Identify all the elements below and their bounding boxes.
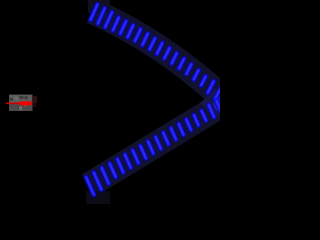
lower helix coil stroke 10 [156,137,161,149]
hairpin vertex smear [200,88,220,117]
faint artifact patch at upper arm start [88,0,110,13]
lower helix coil stroke 17 [209,105,214,117]
upper helix coil stroke 6 [128,25,134,37]
upper helix coil stroke 10 [157,43,162,54]
lower helix coil stroke 14 [186,120,191,130]
upper helix arm backing [92,11,219,94]
lower helix coil stroke 8 [140,146,146,158]
lower helix coil stroke 12 [171,128,176,139]
lower helix coil stroke 9 [148,142,153,154]
lower helix coil stroke 1 [86,177,94,194]
lower helix coil stroke 18 [216,101,221,113]
upper helix coil stroke 7 [135,29,141,41]
upper helix coil stroke 3 [105,12,112,27]
upper helix coil stroke 13 [179,59,184,69]
lower helix coil stroke 16 [202,111,206,121]
lower helix coil stroke 6 [125,155,131,168]
lower helix coil stroke 13 [179,124,184,135]
gray compression patch around ligand [9,95,37,112]
lower helix coil stroke 3 [102,168,109,184]
upper helix coil stroke 2 [98,8,105,23]
upper helix coil stroke 17 [208,81,214,93]
red ligand stick thick segment [21,101,30,105]
faint artifact patch at lower arm start [86,191,110,204]
upper helix coil stroke 11 [164,48,169,59]
lower helix coil stroke 15 [194,115,199,125]
upper helix coil stroke 14 [186,64,191,74]
upper helix coil stroke 12 [172,53,177,63]
upper helix coil stroke 5 [120,21,126,33]
lower helix arm backing [89,106,220,186]
upper helix coil stroke 18 [215,88,221,100]
lower helix coil stroke 7 [133,150,139,163]
lower helix coil stroke 11 [163,133,168,144]
upper helix coil stroke 9 [150,38,156,49]
upper helix coil stroke 15 [194,70,199,79]
red ligand stick thin segment [6,102,21,104]
upper helix coil stroke 1 [91,4,98,20]
upper helix coil stroke 16 [201,76,206,85]
upper helix coil stroke 8 [142,34,148,46]
lower helix coil stroke 4 [110,164,116,178]
lower helix coil stroke 5 [117,159,123,172]
vertex merge blob [214,96,223,111]
upper helix coil stroke 4 [113,17,119,30]
lower helix coil stroke 2 [94,173,102,190]
